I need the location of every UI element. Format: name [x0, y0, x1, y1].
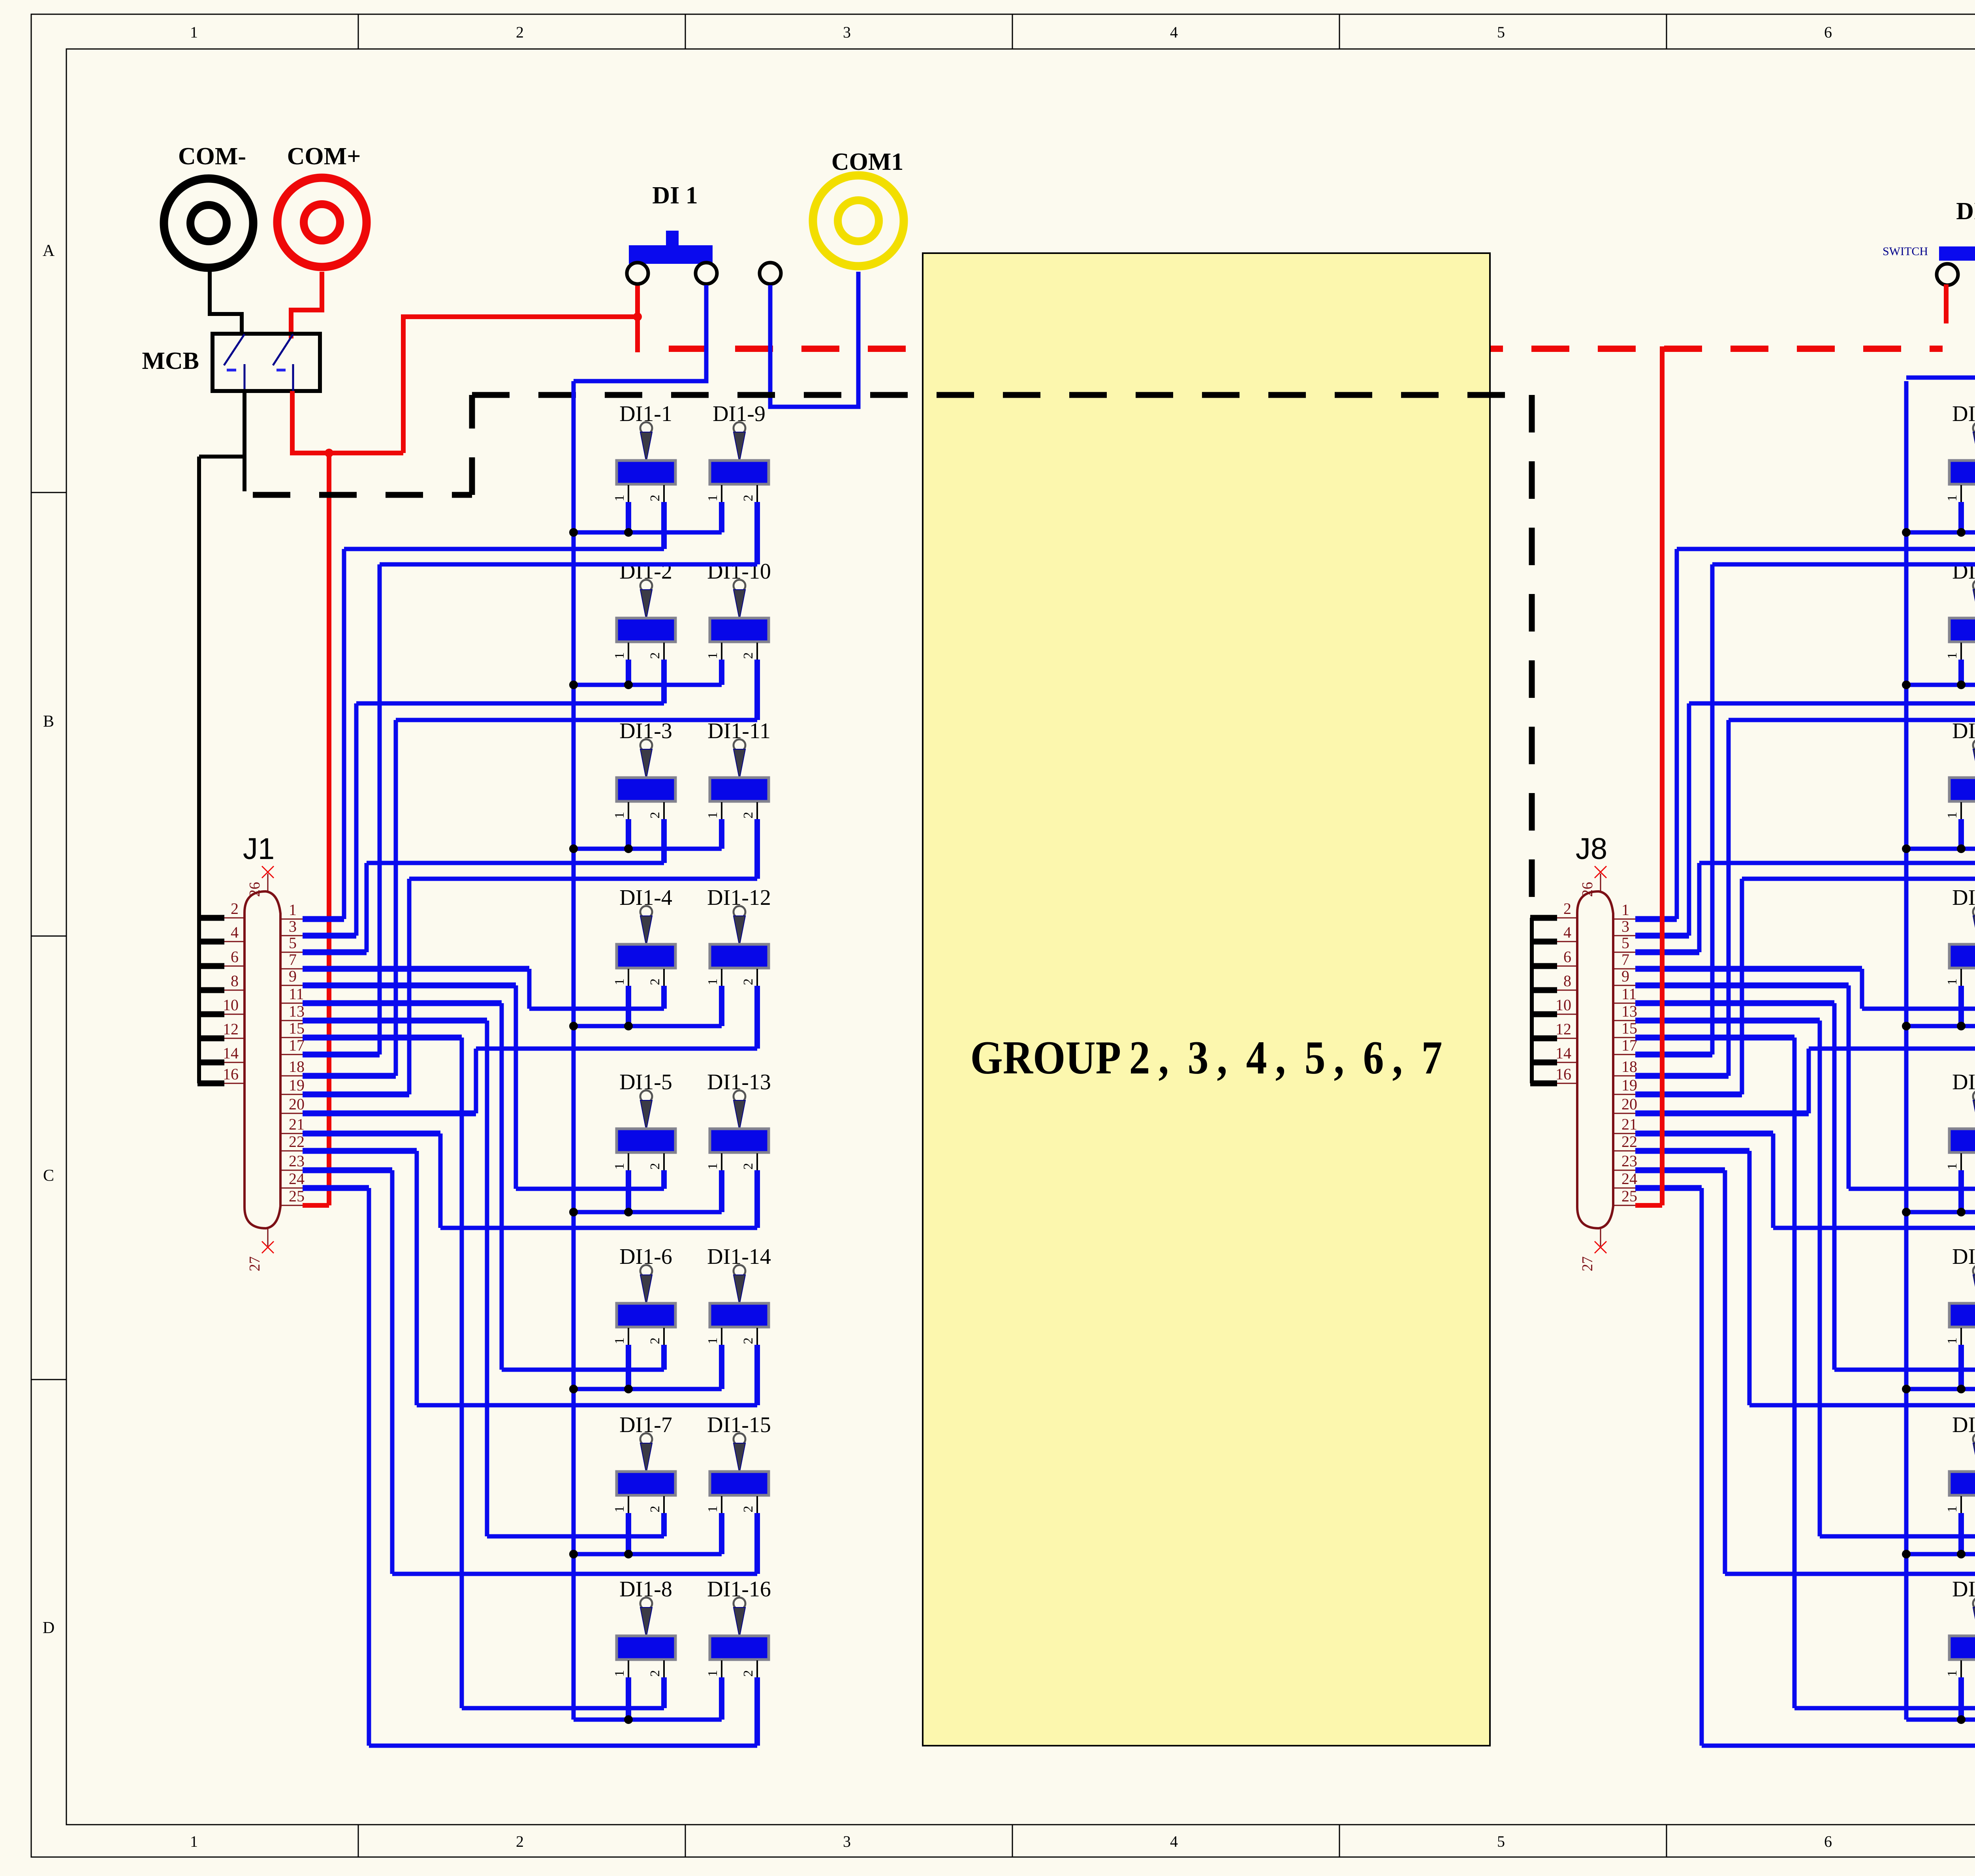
toggle switch DI8-7 pin 1 [1960, 1496, 1962, 1515]
MCB pole 1 blade [224, 334, 245, 365]
svg-text:2: 2 [648, 652, 662, 659]
connector J1 pin 9 [280, 985, 303, 986]
wire J1 pin 24 to DI1-16 pin2 [754, 1677, 760, 1746]
toggle switch DI8-5 pin 1 [1960, 1153, 1962, 1173]
svg-text:DI8-8: DI8-8 [1952, 1577, 1975, 1602]
toggle switch DI8-2 body [1949, 618, 1975, 642]
toggle switch DI1-16 lever [734, 1598, 745, 1609]
toggle switch DI1-14 body [710, 1303, 769, 1327]
wire J1 pin 11 to DI1-6 pin2 [661, 1345, 667, 1370]
toggle switch DI1-3 pin 1 [628, 802, 629, 821]
toggle switch DI1-13 pin 1 [721, 1153, 722, 1173]
connector J8 pin 16 [1556, 1083, 1577, 1084]
junction pin1 row 3 DI1 [624, 844, 633, 853]
svg-text:14: 14 [1556, 1044, 1571, 1062]
wire red DI 8 stub [1944, 287, 1949, 321]
wire J1 pin 9 to DI1-5 pin2 [661, 1170, 667, 1189]
svg-text:5: 5 [1621, 934, 1629, 952]
svg-text:2: 2 [648, 495, 662, 502]
toggle switch DI1-13 body [710, 1129, 769, 1152]
svg-text:6: 6 [231, 948, 239, 966]
connector J8 pin 19 [1613, 1094, 1635, 1095]
connector J1 pin 11 [280, 1003, 303, 1004]
svg-text:2: 2 [741, 1670, 756, 1677]
connector J8 pin 10 [1556, 1014, 1577, 1015]
svg-text:1: 1 [1945, 1506, 1960, 1513]
svg-text:3: 3 [289, 917, 297, 935]
toggle switch DI8-1 lever [1973, 422, 1975, 434]
wire common bus group DI1 [572, 381, 576, 1720]
svg-text:2: 2 [648, 812, 662, 819]
connector J1 pin 10 [224, 1014, 245, 1015]
svg-text:19: 19 [1621, 1076, 1637, 1094]
connector J8 pin 6 [1556, 966, 1577, 967]
pushbutton DI 1 terminal left [627, 263, 648, 284]
toggle switch DI1-8 pin 2 [663, 1660, 665, 1680]
svg-text:24: 24 [1621, 1170, 1637, 1188]
junction pin1 row 7 DI8 [1957, 1550, 1966, 1558]
toggle switch DI8-8 lever [1973, 1598, 1975, 1609]
toggle switch DI1-15 body [710, 1472, 769, 1495]
wire junction row 7 DI1 pin1 bus [574, 1552, 722, 1556]
connector J8 pin 27 [1600, 1228, 1601, 1246]
wire junction row 4 DI8 pin1 bus [1906, 1024, 1975, 1028]
svg-text:2: 2 [648, 1670, 662, 1677]
junction pin1 row 5 DI1 [624, 1208, 633, 1216]
toggle switch DI1-5 lever [640, 1090, 652, 1102]
toggle switch DI8-5 body [1949, 1129, 1975, 1152]
svg-text:2: 2 [516, 23, 524, 41]
svg-text:1: 1 [1945, 495, 1960, 502]
svg-text:8: 8 [1563, 972, 1571, 990]
svg-text:1: 1 [612, 979, 627, 985]
connector J1 pin 23 [280, 1170, 303, 1171]
toggle switch DI8-6 pin 1 [1960, 1328, 1962, 1347]
toggle switch DI1-8 lever [640, 1598, 652, 1609]
svg-text:9: 9 [289, 967, 297, 985]
svg-text:2: 2 [741, 812, 756, 819]
connector J8 pin 1 [1613, 919, 1635, 920]
toggle switch DI1-1 pin 2 [663, 485, 665, 504]
connector J1 pin 14 [224, 1062, 245, 1063]
toggle switch DI1-4 body [617, 944, 675, 968]
svg-text:B: B [43, 712, 54, 731]
connector J8 pin 5 [1613, 952, 1635, 953]
svg-text:2: 2 [648, 979, 662, 985]
svg-text:15: 15 [1621, 1019, 1637, 1037]
toggle switch DI8-3 body [1949, 778, 1975, 801]
wire J1 pin 22 to DI1-14 pin2 [754, 1345, 760, 1405]
toggle switch DI1-7 lever [640, 1433, 652, 1445]
connector J1 body [245, 891, 280, 1228]
svg-text:1: 1 [190, 23, 198, 41]
wire junction row 2 DI8 pin1 bus [1906, 683, 1975, 687]
svg-text:13: 13 [1621, 1002, 1637, 1020]
connector J1 pin 19 [280, 1094, 303, 1095]
toggle switch DI8-2 lever [1973, 580, 1975, 592]
toggle switch DI1-11 pin 1 [721, 802, 722, 821]
svg-text:DI8-3: DI8-3 [1952, 719, 1975, 743]
junction pin1 row 7 DI1 [624, 1550, 633, 1558]
wire MCB negative output to J1 black bus [243, 391, 246, 489]
svg-text:17: 17 [289, 1036, 305, 1054]
junction pin1 row 5 DI8 [1957, 1208, 1966, 1216]
connector J8 pin 14 [1556, 1062, 1577, 1063]
svg-text:DI8-7: DI8-7 [1952, 1413, 1975, 1437]
wire J1 pin 1 to DI1-1 pin2 [661, 502, 667, 549]
toggle switch DI1-3 pin 2 [663, 802, 665, 821]
svg-text:DI8-6: DI8-6 [1952, 1244, 1975, 1269]
wire DI 8 to group8 common bus [1906, 285, 1975, 378]
wire junction row 5 DI8 pin1 bus [1906, 1210, 1975, 1214]
toggle switch DI8-7 lever [1973, 1433, 1975, 1445]
svg-text:18: 18 [289, 1058, 305, 1075]
toggle switch DI1-6 pin 2 [663, 1328, 665, 1347]
toggle switch DI1-16 pin 2 [756, 1660, 758, 1680]
svg-text:26: 26 [246, 882, 263, 897]
wire junction row 1 DI1 pin1 bus [574, 530, 722, 535]
svg-text:1: 1 [612, 495, 627, 502]
toggle switch DI1-12 pin 1 [721, 969, 722, 988]
svg-text:8: 8 [231, 972, 239, 990]
connector J8 pin 18 [1613, 1075, 1635, 1077]
wire COM- to MCB [210, 272, 242, 335]
toggle switch DI1-7 pin 2 [663, 1496, 665, 1515]
svg-text:1: 1 [1945, 979, 1960, 985]
connector J8 pin 4 [1556, 941, 1577, 942]
connector J8 pin 20 [1613, 1113, 1635, 1114]
wire J1 pin 21 to DI1-13 pin2 [754, 1170, 760, 1228]
wire junction row 5 DI1 pin1 bus [574, 1210, 722, 1214]
svg-text:11: 11 [1621, 985, 1637, 1003]
toggle switch DI8-8 pin 1 [1960, 1660, 1962, 1680]
svg-text:2: 2 [648, 1338, 662, 1344]
toggle switch DI1-5 pin 2 [663, 1153, 665, 1173]
toggle switch DI1-10 pin 2 [756, 643, 758, 662]
wire junction row 7 DI8 pin1 bus [1906, 1552, 1975, 1556]
svg-text:1: 1 [1945, 1338, 1960, 1344]
pushbutton DI 8 terminal left [1937, 264, 1958, 285]
svg-text:COM1: COM1 [831, 149, 904, 175]
toggle switch DI1-4 pin 1 [628, 969, 629, 988]
junction pin1 row 6 DI1 [624, 1385, 633, 1393]
svg-text:10: 10 [223, 996, 239, 1014]
toggle switch DI1-1 pin 1 [628, 485, 629, 504]
toggle switch DI8-8 body [1949, 1636, 1975, 1660]
terminal COM- [164, 179, 253, 268]
svg-text:2: 2 [741, 495, 756, 502]
toggle switch DI1-10 lever [734, 580, 745, 592]
black bus group 8 to J8 [1530, 918, 1534, 1083]
wire junction row 3 DI8 pin1 bus [1906, 847, 1975, 851]
toggle switch DI1-8 pin 1 [628, 1660, 629, 1680]
wire MCB positive output [292, 391, 403, 453]
connector J1 pin 8 [224, 990, 245, 991]
svg-text:5: 5 [289, 934, 297, 952]
svg-text:15: 15 [289, 1019, 305, 1037]
svg-text:7: 7 [289, 951, 297, 968]
toggle switch DI1-2 pin 1 [628, 643, 629, 662]
svg-text:4: 4 [1170, 1833, 1178, 1850]
svg-text:1: 1 [705, 812, 720, 819]
svg-text:22: 22 [1621, 1133, 1637, 1150]
junction bus row 7 DI8 [1902, 1550, 1911, 1558]
toggle switch DI1-8 body [617, 1636, 675, 1660]
toggle switch DI1-10 body [710, 618, 769, 642]
connector J8 pin 25 [1613, 1205, 1635, 1206]
connector J1 pin 4 [224, 941, 245, 942]
wire red DI 1 terminal stub [635, 285, 640, 350]
svg-text:4: 4 [1563, 923, 1571, 941]
connector J1 pin 13 [280, 1020, 303, 1021]
connector J1 pin 25 [280, 1205, 303, 1206]
svg-text:MCB: MCB [142, 348, 199, 374]
wire red COM+ down to J1 pin25 [327, 453, 331, 1205]
toggle switch DI1-3 lever [640, 739, 652, 751]
connector J8 pin 9 [1613, 985, 1635, 986]
connector J1 pin 26 [267, 874, 269, 891]
toggle switch DI1-15 lever [734, 1433, 745, 1445]
terminal COM+ [277, 178, 367, 267]
svg-text:COM+: COM+ [287, 143, 361, 170]
svg-text:C: C [43, 1167, 54, 1185]
toggle switch DI8-3 pin 1 [1960, 802, 1962, 821]
junction bus row 3 DI1 [569, 844, 578, 853]
toggle switch DI1-16 pin 1 [721, 1660, 722, 1680]
toggle switch DI8-7 body [1949, 1472, 1975, 1495]
MCB pole 2 blade [273, 334, 293, 365]
connector J1 pin 16 [224, 1083, 245, 1084]
svg-text:1: 1 [1621, 901, 1629, 919]
toggle switch DI1-2 body [617, 618, 675, 642]
svg-text:DI 8: DI 8 [1956, 198, 1975, 225]
svg-text:5: 5 [1497, 1833, 1505, 1850]
svg-text:3: 3 [1621, 917, 1629, 935]
connector J1 pin 2 [224, 917, 245, 919]
connector J1 pin 6 [224, 966, 245, 967]
toggle switch DI1-14 lever [734, 1265, 745, 1277]
svg-text:1: 1 [1945, 1670, 1960, 1677]
svg-text:1: 1 [612, 812, 627, 819]
svg-text:16: 16 [223, 1065, 239, 1083]
connector J1 pin 20 [280, 1113, 303, 1114]
toggle switch DI1-9 pin 2 [756, 485, 758, 504]
svg-text:GROUP 2 , 3 , 4 , 5 , 6 ,: GROUP 2 , 3 , 4 , 5 , 6 , 7 [971, 1031, 1443, 1084]
svg-text:2: 2 [231, 900, 239, 917]
toggle switch DI1-1 body [617, 461, 675, 484]
svg-text:23: 23 [289, 1152, 305, 1170]
toggle switch DI1-13 pin 2 [756, 1153, 758, 1173]
svg-text:18: 18 [1621, 1058, 1637, 1075]
toggle switch DI8-4 body [1949, 944, 1975, 968]
svg-text:SWITCH: SWITCH [1883, 245, 1928, 258]
svg-text:DI8-1: DI8-1 [1952, 402, 1975, 426]
wire junction row 8 DI1 pin1 bus [574, 1718, 722, 1722]
toggle switch DI1-1 lever [640, 422, 652, 434]
toggle switch DI1-15 pin 1 [721, 1496, 722, 1515]
svg-text:1: 1 [705, 652, 720, 659]
toggle switch DI1-6 pin 1 [628, 1328, 629, 1347]
wire J1 pin 13 to DI1-7 pin2 [661, 1513, 667, 1536]
connector J1 pin 7 [280, 968, 303, 970]
svg-text:21: 21 [289, 1115, 305, 1133]
toggle switch DI1-12 body [710, 944, 769, 968]
toggle switch DI8-6 body [1949, 1303, 1975, 1327]
junction bus row 2 DI8 [1902, 680, 1911, 689]
junction bus row 6 DI8 [1902, 1385, 1911, 1393]
junction red COM+ node [325, 449, 333, 457]
toggle switch DI8-4 pin 1 [1960, 969, 1962, 988]
svg-text:11: 11 [289, 985, 304, 1003]
svg-text:1: 1 [612, 1338, 627, 1344]
svg-text:23: 23 [1621, 1152, 1637, 1170]
junction bus row 3 DI8 [1902, 844, 1911, 853]
toggle switch DI1-5 body [617, 1129, 675, 1152]
svg-text:1: 1 [705, 1506, 720, 1513]
connector J8 body [1577, 891, 1613, 1228]
svg-text:1: 1 [705, 495, 720, 502]
terminal COM1 [813, 175, 904, 266]
junction bus row 6 DI1 [569, 1385, 578, 1393]
toggle switch DI8-4 lever [1973, 906, 1975, 918]
svg-text:1: 1 [190, 1833, 198, 1850]
svg-text:6: 6 [1824, 1833, 1832, 1850]
junction pin1 row 1 DI1 [624, 528, 633, 537]
connector J8 pin 22 [1613, 1150, 1635, 1152]
svg-text:1: 1 [705, 1670, 720, 1677]
connector J8 pin 13 [1613, 1020, 1635, 1021]
svg-text:COM-: COM- [178, 143, 246, 170]
svg-text:DI8-4: DI8-4 [1952, 885, 1975, 910]
svg-text:1: 1 [705, 979, 720, 985]
connector J8 pin 15 [1613, 1037, 1635, 1038]
wire J1 pin 18 to DI1-10 pin2 [754, 660, 760, 720]
toggle switch DI1-9 body [710, 461, 769, 484]
junction bus row 1 DI8 [1902, 528, 1911, 537]
zone dividers top band [358, 14, 359, 49]
svg-text:4: 4 [231, 923, 239, 941]
svg-text:1: 1 [1945, 1163, 1960, 1170]
connector J8 pin 8 [1556, 990, 1577, 991]
toggle switch DI1-12 lever [734, 906, 745, 918]
connector J8 pin 23 [1613, 1170, 1635, 1171]
svg-text:20: 20 [1621, 1095, 1637, 1113]
svg-text:1: 1 [289, 901, 297, 919]
junction bus row 2 DI1 [569, 680, 578, 689]
wire junction row 6 DI8 pin1 bus [1906, 1387, 1975, 1391]
toggle switch DI1-14 pin 2 [756, 1328, 758, 1347]
wire common bus group DI8 [1904, 381, 1909, 1720]
pushbutton DI 1 terminal right [696, 263, 717, 284]
connector J1 pin 22 [280, 1150, 303, 1152]
svg-text:17: 17 [1621, 1036, 1637, 1054]
svg-text:2: 2 [741, 1338, 756, 1344]
junction pin1 row 2 DI8 [1957, 680, 1966, 689]
svg-text:10: 10 [1556, 996, 1571, 1014]
toggle switch DI1-9 pin 1 [721, 485, 722, 504]
connector J8 pin 12 [1556, 1038, 1577, 1039]
svg-text:16: 16 [1556, 1065, 1571, 1083]
svg-text:DI8-5: DI8-5 [1952, 1070, 1975, 1094]
svg-text:3: 3 [843, 1833, 851, 1850]
connector J1 pin 12 [224, 1038, 245, 1039]
toggle switch DI1-16 body [710, 1636, 769, 1660]
connector J8 pin 11 [1613, 1003, 1635, 1004]
junction red at DI 1 terminal [633, 312, 642, 321]
junction pin1 row 2 DI1 [624, 680, 633, 689]
svg-text:2: 2 [741, 1506, 756, 1513]
connector J1 pin 5 [280, 952, 303, 953]
svg-text:27: 27 [1579, 1256, 1596, 1271]
wire J1 pin 3 to DI1-2 pin2 [661, 660, 667, 703]
svg-text:27: 27 [246, 1256, 263, 1271]
hidden groups box [923, 253, 1490, 1746]
connector J1 pin 17 [280, 1054, 303, 1055]
wire J1 pin 15 to DI1-8 pin2 [661, 1677, 667, 1708]
svg-text:2: 2 [516, 1833, 524, 1850]
wire junction row 3 DI1 pin1 bus [574, 847, 722, 851]
svg-text:J1: J1 [243, 832, 275, 866]
wire junction row 4 DI1 pin1 bus [574, 1024, 722, 1028]
toggle switch DI8-1 body [1949, 461, 1975, 484]
connector J8 pin 17 [1613, 1054, 1635, 1055]
toggle switch DI8-6 lever [1973, 1265, 1975, 1277]
svg-text:1: 1 [1945, 652, 1960, 659]
toggle switch DI1-11 body [710, 778, 769, 801]
wire COM+ to MCB [291, 272, 322, 338]
connector J8 pin 21 [1613, 1133, 1635, 1134]
terminal aux COM1 [760, 263, 781, 284]
row letter dividers [31, 492, 66, 493]
wire DI 1 to group1 common bus [574, 285, 706, 381]
toggle switch DI1-2 lever [640, 580, 652, 592]
svg-text:26: 26 [1579, 882, 1596, 897]
toggle switch DI1-10 pin 1 [721, 643, 722, 662]
svg-text:1: 1 [612, 1506, 627, 1513]
svg-text:4: 4 [1170, 23, 1178, 41]
junction bus row 7 DI1 [569, 1550, 578, 1558]
junction bus row 5 DI1 [569, 1208, 578, 1216]
junction pin1 row 3 DI8 [1957, 844, 1966, 853]
connector J1 pin 3 [280, 935, 303, 936]
connector J1 pin 21 [280, 1133, 303, 1134]
toggle switch DI1-11 pin 2 [756, 802, 758, 821]
svg-text:2: 2 [648, 1506, 662, 1513]
toggle switch DI1-14 pin 1 [721, 1328, 722, 1347]
junction pin1 row 1 DI8 [1957, 528, 1966, 537]
connector J1 pin 24 [280, 1188, 303, 1189]
junction bus row 4 DI1 [569, 1022, 578, 1030]
wire junction row 6 DI1 pin1 bus [574, 1387, 722, 1391]
svg-text:14: 14 [223, 1044, 239, 1062]
wire red group8 to J8 pin25 [1660, 346, 1665, 1205]
junction bus row 1 DI1 [569, 528, 578, 537]
connector J1 pin 15 [280, 1037, 303, 1038]
svg-text:3: 3 [843, 23, 851, 41]
toggle switch DI8-2 pin 1 [1960, 643, 1962, 662]
svg-text:6: 6 [1563, 948, 1571, 966]
connector J1 pin 1 [280, 919, 303, 920]
connector J8 pin 7 [1613, 968, 1635, 970]
svg-text:2: 2 [741, 652, 756, 659]
svg-text:1: 1 [705, 1163, 720, 1170]
svg-text:2: 2 [648, 1163, 662, 1170]
svg-text:1: 1 [705, 1338, 720, 1344]
junction pin1 row 8 DI8 [1957, 1715, 1966, 1724]
wire J1 pin 19 to DI1-11 pin2 [754, 819, 760, 879]
svg-text:12: 12 [1556, 1020, 1571, 1038]
toggle switch DI1-12 pin 2 [756, 969, 758, 988]
